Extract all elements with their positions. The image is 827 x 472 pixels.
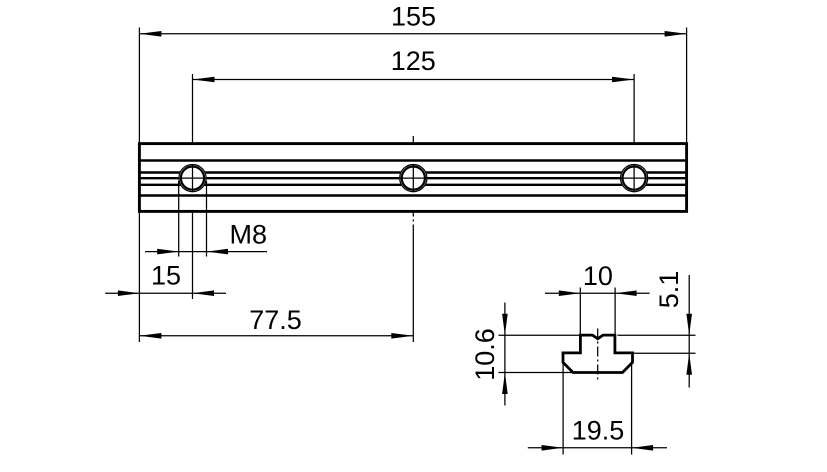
dimension 125 (193, 46, 635, 82)
node: hole 3 centerline (633, 74, 635, 199)
svg-text:10.6: 10.6 (470, 328, 500, 381)
node: hole 2 centerline (412, 136, 414, 217)
svg-text:19.5: 19.5 (572, 416, 625, 446)
dimension M8 (145, 219, 267, 254)
svg-text:77.5: 77.5 (249, 305, 302, 335)
groove line 2 (141, 171, 686, 173)
dimension 77.5 (139, 305, 413, 339)
groove line 4 (141, 184, 686, 186)
hole 2 (M8 tapped) (399, 164, 427, 192)
svg-text:155: 155 (391, 2, 436, 32)
M8 thread callout extension lines (178, 181, 180, 257)
section centerline (dashed) (597, 329, 599, 380)
dimension 155 (139, 2, 686, 37)
rail body side view (139, 144, 686, 212)
hole 3 (M8 tapped) (620, 164, 648, 192)
svg-text:M8: M8 (230, 219, 268, 249)
dimension 10.6 (total height) (470, 303, 579, 406)
groove line 5 (141, 194, 686, 196)
node: hole 1 centerline (192, 74, 194, 200)
svg-text:5.1: 5.1 (654, 271, 684, 309)
dimension 10 (stem width) (545, 261, 650, 334)
svg-text:10: 10 (583, 261, 613, 291)
groove line 1 (141, 159, 686, 161)
dimension 19.5 (base width) (528, 362, 667, 455)
groove line 3 (center) (141, 177, 686, 179)
svg-text:15: 15 (151, 260, 181, 290)
section view profile (T-slot) (563, 329, 633, 380)
hole 1 (M8 tapped) (178, 164, 206, 192)
wire: right extension line (rail right edge extended up) (686, 28, 688, 144)
wire: left extension line (rail left edge extended up and down) (138, 28, 140, 343)
dimension 15 (105, 260, 226, 296)
svg-text:125: 125 (391, 46, 436, 76)
dimension 5.1 (stem height) (618, 271, 696, 388)
